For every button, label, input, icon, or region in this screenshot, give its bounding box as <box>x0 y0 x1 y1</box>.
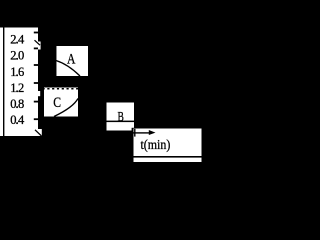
svg-text:2.0: 2.0 <box>10 49 24 63</box>
svg-text:B: B <box>118 109 124 124</box>
axis tick marks <box>34 32 38 121</box>
left border line of label box <box>3 28 4 137</box>
y-axis label box <box>0 28 38 137</box>
box C <box>44 88 78 117</box>
svg-text:0.8: 0.8 <box>10 97 24 111</box>
box B <box>107 103 135 131</box>
svg-text:0.4: 0.4 <box>10 113 25 127</box>
svg-text:C: C <box>53 95 61 111</box>
box A <box>56 46 88 76</box>
decimal dots reinforced <box>16 42 17 124</box>
svg-text:t(min): t(min) <box>141 137 171 153</box>
y-axis labels <box>10 32 25 127</box>
svg-text:1.2: 1.2 <box>10 81 24 95</box>
t(min) box <box>134 129 202 163</box>
axis hook white bits right of box <box>38 42 41 50</box>
svg-text:2.4: 2.4 <box>10 32 25 46</box>
svg-text:A: A <box>67 51 76 67</box>
svg-text:1.6: 1.6 <box>10 65 24 79</box>
